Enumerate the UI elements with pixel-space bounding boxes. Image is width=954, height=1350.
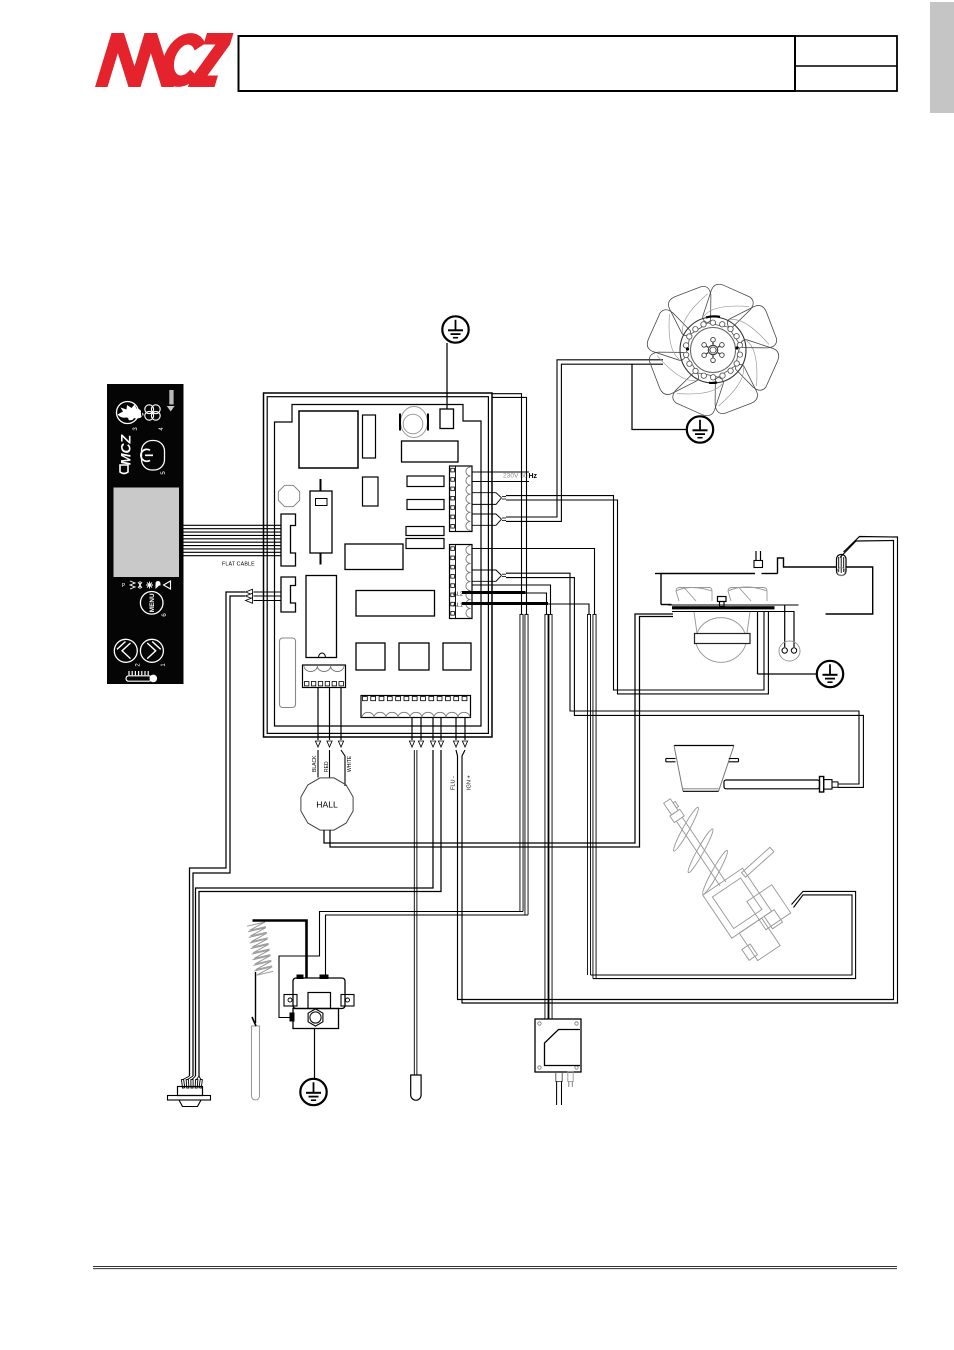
vacuum switch body [293,978,345,1009]
svg-text:MENU: MENU [149,593,156,612]
triac Q1 [356,643,385,670]
electrolytic capacitor C1 [320,479,322,491]
room fan mounting plate [672,606,775,609]
svg-text:HALL: HALL [316,800,338,810]
wire CN2 to power inlet B [472,585,551,614]
wire CN1 to smoke fan (pair) [472,514,502,525]
header revision box [795,36,897,91]
component small rect [363,477,379,506]
relay K2 [280,638,296,708]
triac Q2 [399,643,429,670]
wire hall BLACK [317,688,319,741]
serial DB9 connector [168,1076,211,1107]
svg-text:BLACK: BLACK [312,755,318,772]
wire mains 230V line L [472,471,529,473]
wire serial pair from board A [254,591,282,593]
wire hall to room fan A [324,614,673,843]
hall sensor [301,778,353,830]
wire CN4 safety loop B [464,718,466,741]
wire CN4 to serial pair A [432,718,434,741]
component vertical rect [363,415,376,458]
panel left arrow button [114,639,137,662]
protective earth symbol (room fan) [817,661,843,687]
room fan hub [718,597,727,602]
resistor block R4 [406,539,444,549]
wire hall RED [329,688,331,741]
protective earth symbol (vacuum switch) [300,1079,326,1105]
wire hall to room fan B [330,617,673,848]
wire board frame to vacuum switch (pair) [492,394,522,614]
svg-text:AL1: AL1 [453,603,463,609]
panel right arrow button [140,639,163,662]
connector CN-serial (board side) [281,577,296,612]
protective earth symbol (board) [442,316,468,342]
svg-text:RED: RED [324,761,330,772]
page tab gray strip [930,2,954,113]
room fan thermostat [755,551,757,561]
wire CN4 to serial pair B [440,718,442,741]
thermostat bulb [252,1026,260,1100]
IC U1 [345,544,403,570]
label IGN [467,775,473,790]
wire hall WHITE [340,688,342,741]
control board inner frame [267,397,488,734]
panel status icons row [120,581,170,589]
label RED [324,761,330,772]
wire AL2 to power inlet [526,593,547,614]
svg-text:FLU -: FLU - [451,776,457,790]
capillary line [255,972,257,1023]
wire vacuum switch to PE ground [314,1029,316,1081]
wire serial run A [190,592,246,1076]
flat cable wires [184,525,282,555]
svg-text:WHITE: WHITE [347,755,353,772]
footer rule [93,1266,897,1268]
label FLU [451,776,457,790]
wire AL1 thick lead [462,602,548,605]
room fan motor [694,612,750,662]
wire earth terminal to PE symbol [446,343,448,409]
motor capacitor [779,641,800,661]
wire CN1 to room fan supply (pair) [472,493,502,505]
panel power button [142,441,165,471]
label WHITE [347,755,353,772]
connector CN2 (loads) [450,545,473,619]
svg-text:230V 50: 230V 50 [503,473,528,480]
wire CN4 safety loop A (to room-fan terminal) [455,718,457,741]
svg-text:FLAT CABLE: FLAT CABLE [222,562,255,568]
wire AL1 to auger motor B [548,604,589,614]
control board PCB outline [275,405,482,727]
room fan top rail wire [661,573,755,575]
motor capacitor wires [784,605,786,647]
connector CN3 (3-pin hall) [303,665,346,688]
wire coil to vacuum switch (thick) [253,921,307,979]
logo MCZ [95,33,234,87]
wire mains 230V line N [472,481,529,483]
crimp terminal [837,555,847,576]
wire CN4 flue probe stub 1 [411,718,413,741]
component tall rect U3 [306,576,337,658]
wire smoke fan to PE ground [632,364,687,430]
buzzer [401,407,428,438]
wire CN4 flue probe stub 2 [420,718,422,741]
wire CN2 to auger motor A [472,549,595,615]
power inlet box [535,1019,581,1072]
transformer T1 [299,411,358,468]
panel flame button [117,402,139,424]
resistor block R1 [407,476,444,487]
panel MENU button [140,592,163,615]
wire room fan to PE ground [757,612,759,675]
auger and gearmotor [647,767,819,966]
protective earth symbol (smoke fan) [687,416,713,442]
panel fan button [142,402,164,424]
svg-text:AL2: AL2 [453,592,463,598]
IC U2 [356,591,435,617]
panel LCD display [114,488,180,578]
room fan bracket [660,574,662,605]
resistor block R3 [406,527,444,536]
wire AL2 thick lead [462,591,526,594]
wire terminal to motor terminal [826,567,873,614]
flue probe cable (sheathed) [413,750,415,1075]
igniter cartridge [724,780,820,789]
connector CN4 (bottom multi-pin) [361,696,471,718]
smoke fan [642,279,785,422]
wire CN2 to igniter (pair) [472,570,502,581]
power plug prongs [556,1072,562,1082]
room fan blades [676,587,767,601]
control panel body [107,384,184,684]
label BLACK [312,755,318,772]
pellet hopper [674,745,734,747]
svg-text:MCZ: MCZ [118,434,134,465]
connector CN1 (mains/outputs) [450,466,473,532]
panel MCZ white logo [118,434,134,465]
flue gas probe bulb [411,1075,421,1100]
capillary coil [247,922,273,975]
wire serial run B [193,596,245,1076]
svg-text:Hz: Hz [529,473,538,480]
resistor block R2 [407,500,444,510]
header title box [239,36,796,91]
connector CN-display [281,514,296,566]
panel thermometer icon [126,671,157,682]
cable sheaths (double-line) [520,614,596,1019]
relay K1 [402,441,459,462]
triac Q3 [443,643,471,670]
crystal/varistor [278,485,299,506]
earth terminal on board [440,409,454,429]
panel IR window [169,390,173,405]
control board outer frame [264,393,493,737]
svg-text:IGN +: IGN + [467,775,473,790]
